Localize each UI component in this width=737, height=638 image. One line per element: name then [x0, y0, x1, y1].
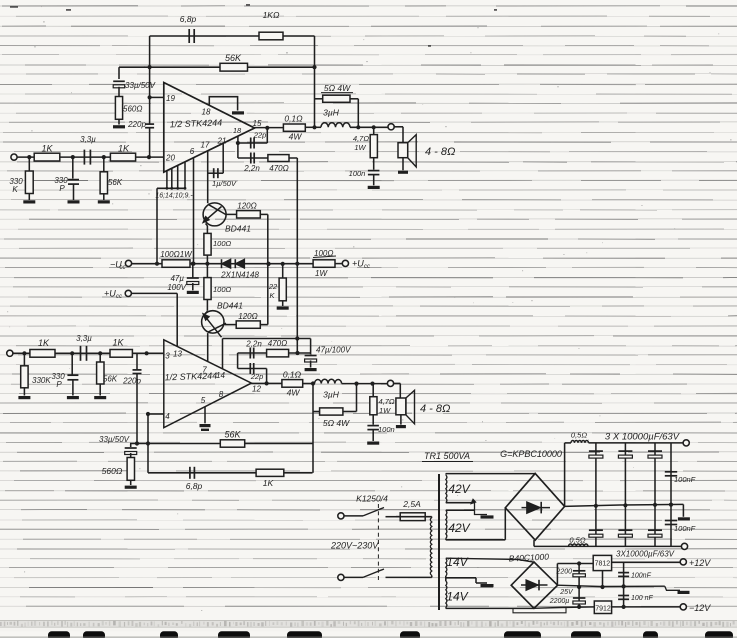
svg-text:3,3µ: 3,3µ: [76, 334, 92, 343]
svg-text:0,1Ω: 0,1Ω: [284, 114, 303, 124]
svg-text:G=KPBC10000: G=KPBC10000: [500, 449, 562, 459]
svg-text:P: P: [56, 380, 62, 389]
svg-text:7912: 7912: [595, 606, 611, 613]
svg-text:14V: 14V: [446, 590, 468, 604]
svg-text:1KΩ: 1KΩ: [263, 10, 280, 20]
svg-text:3: 3: [165, 352, 170, 361]
svg-text:1/2 STK4244: 1/2 STK4244: [169, 118, 222, 130]
svg-text:2,2n: 2,2n: [245, 340, 262, 349]
svg-text:560Ω: 560Ω: [123, 105, 142, 114]
svg-text:100nF: 100nF: [674, 524, 696, 533]
svg-text:22: 22: [268, 282, 278, 291]
svg-text:1K: 1K: [112, 338, 124, 348]
svg-text:25V: 25V: [559, 589, 574, 596]
svg-text:2,2n: 2,2n: [243, 164, 260, 173]
svg-text:1K: 1K: [118, 144, 130, 154]
svg-text:14V: 14V: [446, 555, 468, 569]
svg-text:8: 8: [219, 390, 224, 399]
svg-text:TR1 500VA: TR1 500VA: [424, 451, 470, 461]
svg-text:17: 17: [201, 141, 210, 150]
svg-text:K: K: [12, 185, 18, 194]
svg-text:6,8p: 6,8p: [180, 14, 197, 24]
svg-text:56K: 56K: [108, 178, 123, 187]
svg-text:3µH: 3µH: [323, 108, 340, 118]
svg-text:cc: cc: [364, 264, 370, 270]
svg-text:56K: 56K: [103, 375, 118, 384]
svg-text:−12V: −12V: [689, 603, 711, 613]
svg-text:33µ/50V: 33µ/50V: [99, 435, 130, 444]
svg-text:100 nF: 100 nF: [631, 595, 654, 602]
svg-text:2X1N4148: 2X1N4148: [220, 271, 259, 280]
svg-text:4W: 4W: [287, 388, 301, 398]
svg-text:4W: 4W: [289, 132, 303, 142]
svg-text:4 - 8Ω: 4 - 8Ω: [425, 146, 455, 158]
svg-text:120Ω: 120Ω: [238, 312, 257, 321]
svg-text:470Ω: 470Ω: [269, 164, 288, 173]
svg-text:BD441: BD441: [217, 301, 243, 311]
svg-text:42V: 42V: [448, 521, 470, 535]
svg-text:100nF: 100nF: [631, 573, 652, 580]
svg-text:33µ/50V: 33µ/50V: [125, 81, 156, 90]
svg-text:100n: 100n: [349, 169, 366, 178]
svg-text:2200: 2200: [555, 569, 572, 576]
svg-text:1K: 1K: [38, 338, 50, 348]
svg-text:16;14;10;9.-: 16;14;10;9.-: [155, 193, 193, 200]
svg-text:1W: 1W: [354, 143, 366, 152]
svg-text:1W: 1W: [315, 269, 328, 278]
svg-text:1µ/50V: 1µ/50V: [212, 179, 237, 188]
svg-text:21: 21: [217, 137, 227, 146]
svg-text:7: 7: [202, 366, 207, 375]
svg-text:6: 6: [190, 147, 195, 156]
svg-text:56K: 56K: [225, 53, 242, 63]
svg-text:120Ω: 120Ω: [237, 202, 256, 211]
svg-text:56K: 56K: [224, 430, 241, 440]
svg-text:cc: cc: [116, 294, 122, 300]
svg-text:14: 14: [216, 371, 225, 380]
svg-text:18: 18: [202, 108, 211, 117]
svg-text:2,5A: 2,5A: [402, 499, 421, 509]
svg-text:5: 5: [201, 396, 206, 405]
svg-text:3,3µ: 3,3µ: [80, 135, 96, 144]
svg-text:220p: 220p: [127, 120, 146, 129]
svg-text:100Ω: 100Ω: [213, 285, 232, 294]
svg-text:0,1Ω: 0,1Ω: [283, 370, 302, 380]
svg-text:+U: +U: [104, 289, 116, 299]
svg-text:470Ω: 470Ω: [268, 339, 287, 348]
svg-text:220p: 220p: [122, 377, 141, 386]
svg-text:3 X 10000µF/63V: 3 X 10000µF/63V: [605, 432, 681, 443]
svg-text:+U: +U: [352, 259, 364, 269]
svg-text:P: P: [59, 184, 65, 193]
svg-text:3X10000µF/63V: 3X10000µF/63V: [616, 550, 675, 559]
svg-text:19: 19: [166, 94, 175, 103]
svg-text:7812: 7812: [595, 561, 611, 568]
svg-text:47µ/100V: 47µ/100V: [316, 346, 351, 355]
svg-text:4,7Ω: 4,7Ω: [379, 397, 395, 406]
svg-text:330K: 330K: [32, 376, 51, 385]
svg-text:1K: 1K: [41, 144, 53, 154]
svg-text:4,7Ω: 4,7Ω: [353, 134, 369, 143]
svg-text:20: 20: [165, 154, 175, 163]
svg-text:1K: 1K: [263, 478, 274, 488]
svg-text:0,5Ω: 0,5Ω: [569, 536, 585, 545]
svg-text:18: 18: [233, 126, 242, 135]
svg-text:4 - 8Ω: 4 - 8Ω: [420, 403, 450, 415]
svg-text:100V: 100V: [167, 283, 186, 292]
svg-text:3µH: 3µH: [323, 390, 340, 400]
svg-text:6,8p: 6,8p: [186, 481, 203, 491]
svg-text:5Ω 4W: 5Ω 4W: [323, 418, 350, 428]
svg-text:+12V: +12V: [689, 558, 711, 568]
svg-text:1W: 1W: [379, 406, 391, 415]
svg-text:100Ω: 100Ω: [314, 249, 333, 258]
svg-text:15: 15: [253, 119, 262, 128]
svg-text:13: 13: [173, 350, 182, 359]
svg-text:47µ: 47µ: [170, 274, 184, 283]
svg-text:BD441: BD441: [225, 224, 251, 234]
svg-text:0,5Ω: 0,5Ω: [571, 431, 587, 440]
svg-text:4: 4: [165, 412, 170, 421]
svg-text:1/2 STK4244: 1/2 STK4244: [164, 371, 217, 383]
svg-text:12: 12: [252, 385, 261, 394]
svg-text:42V: 42V: [448, 482, 470, 496]
svg-text:22p: 22p: [250, 372, 264, 381]
svg-text:100n: 100n: [378, 425, 395, 434]
svg-text:22p: 22p: [253, 131, 267, 140]
svg-text:220V~230V: 220V~230V: [330, 541, 379, 551]
svg-text:2200µ: 2200µ: [549, 598, 570, 605]
svg-text:5Ω 4W: 5Ω 4W: [324, 83, 351, 93]
svg-text:100nF: 100nF: [674, 475, 696, 484]
svg-text:560Ω: 560Ω: [102, 466, 123, 476]
svg-text:100Ω: 100Ω: [213, 239, 232, 248]
svg-text:B40C1000: B40C1000: [509, 551, 550, 563]
svg-text:100Ω1W: 100Ω1W: [160, 250, 193, 259]
svg-text:cc: cc: [120, 265, 126, 271]
svg-text:K1250/4: K1250/4: [356, 494, 388, 504]
